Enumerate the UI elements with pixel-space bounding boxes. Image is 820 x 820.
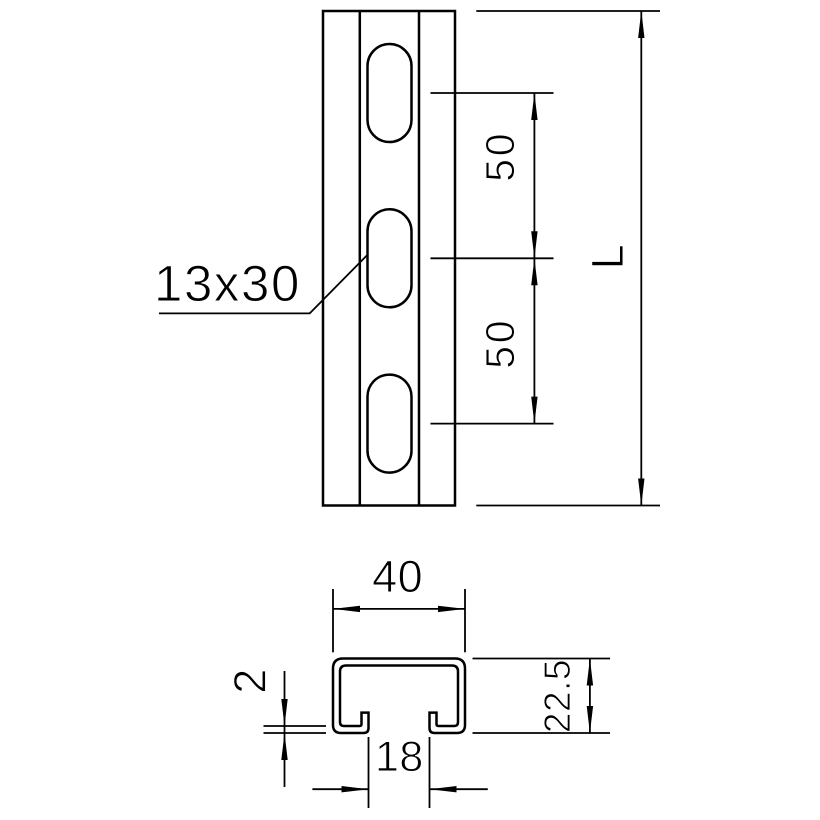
40 dimension: left extension line — [332, 589, 334, 652]
L top extension line — [476, 10, 660, 12]
2 dimension: upper extension line — [264, 725, 327, 727]
arrowhead up at top (L) — [638, 11, 644, 38]
2 dimension line (vertical) — [284, 671, 286, 787]
22.5 dimension: top extension line — [473, 658, 611, 660]
svg-text:22.5: 22.5 — [537, 659, 578, 733]
channel inner edge left — [359, 11, 362, 506]
svg-text:18: 18 — [375, 733, 424, 781]
svg-text:50: 50 — [477, 131, 523, 182]
svg-text:13x30: 13x30 — [154, 255, 301, 312]
svg-text:40: 40 — [372, 551, 423, 602]
svg-text:2: 2 — [224, 669, 275, 694]
22.5 dimension: bottom extension line — [473, 732, 611, 734]
18 dimension: right extension line — [429, 737, 431, 808]
channel profile outline — [333, 659, 465, 734]
channel inner edge right — [418, 11, 421, 506]
arrowhead left-pointing (18 right) — [430, 786, 457, 792]
arrowhead down to slot2 line — [531, 231, 537, 258]
40 dimension line — [333, 608, 465, 610]
svg-text:L: L — [582, 244, 633, 269]
svg-text:50: 50 — [477, 318, 523, 369]
extension line slot2 center — [431, 257, 554, 259]
slot 3 (13x30) — [368, 375, 412, 473]
extension line slot1 center — [431, 92, 554, 94]
arrowhead left (40) — [333, 606, 360, 612]
L dimension line — [640, 11, 642, 506]
arrowhead up to lower line (2) — [281, 733, 287, 760]
arrowhead down at slot3 line — [531, 397, 537, 424]
18 dimension line right segment — [430, 788, 488, 790]
18 dimension: left extension line — [368, 737, 370, 808]
arrowhead down to upper line (2) — [281, 699, 287, 726]
18 dimension line left segment — [312, 788, 368, 790]
arrowhead right-pointing (18 left) — [342, 786, 369, 792]
dimension line 50/50 — [533, 93, 535, 424]
arrowhead up at slot1 line — [531, 93, 537, 120]
arrowhead right (40) — [438, 606, 465, 612]
leader line for 13x30 — [159, 255, 367, 314]
arrowhead down at bottom (L) — [638, 479, 644, 506]
arrowhead up (22.5) — [587, 659, 593, 686]
arrowhead up from slot2 line — [531, 258, 537, 285]
arrowhead down (22.5) — [587, 706, 593, 733]
extension line slot3 center — [431, 423, 554, 425]
slot 2 (13x30) — [368, 209, 412, 307]
40 dimension: right extension line — [464, 589, 466, 652]
L bottom extension line — [476, 505, 660, 507]
slot 1 (13x30) — [368, 44, 412, 142]
channel outer rectangle — [323, 11, 455, 506]
22.5 dimension line — [589, 659, 591, 734]
2 dimension: lower extension line — [264, 732, 327, 734]
